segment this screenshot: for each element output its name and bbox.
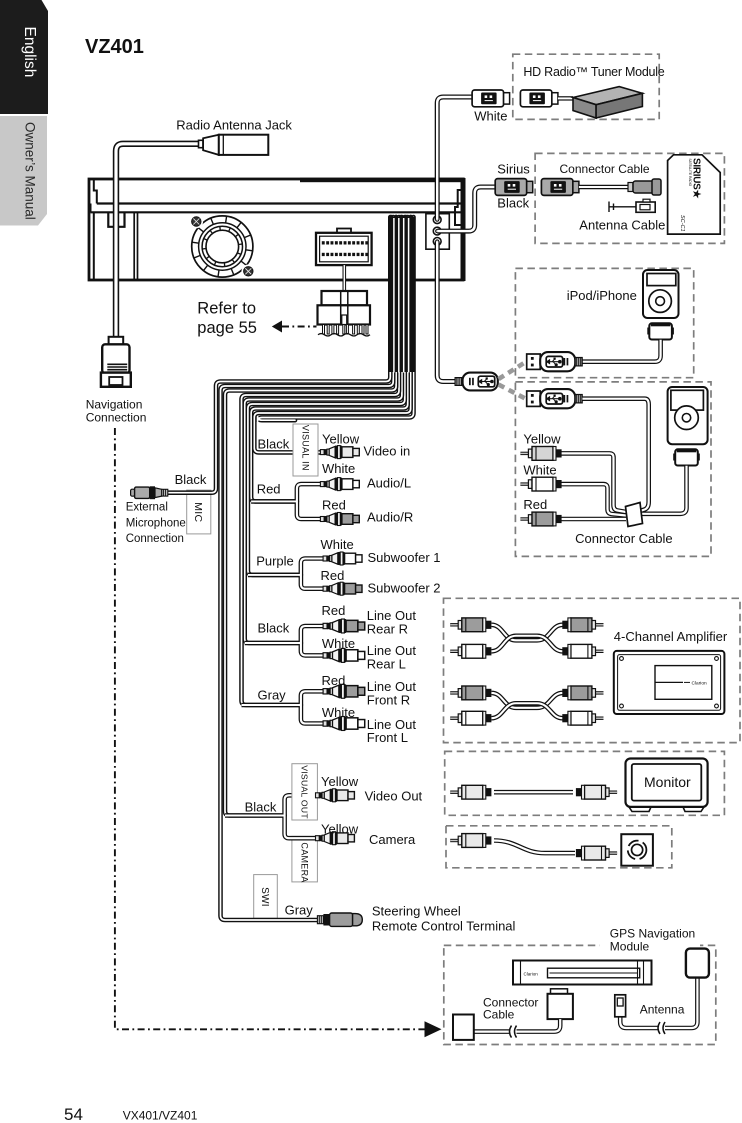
svg-text:Connector Cable: Connector Cable bbox=[560, 162, 650, 176]
svg-text:GPS Navigation: GPS Navigation bbox=[610, 927, 695, 941]
svg-text:Module: Module bbox=[610, 940, 650, 954]
svg-text:Subwoofer 1: Subwoofer 1 bbox=[368, 550, 441, 565]
svg-text:VX401/VZ401: VX401/VZ401 bbox=[123, 1109, 198, 1123]
svg-text:White: White bbox=[322, 636, 355, 651]
svg-text:Video in: Video in bbox=[364, 444, 411, 459]
svg-text:Black: Black bbox=[258, 621, 290, 636]
svg-text:Red: Red bbox=[257, 482, 281, 497]
svg-text:VISUAL OUT: VISUAL OUT bbox=[300, 765, 310, 819]
svg-text:SATELLITE RADIO: SATELLITE RADIO bbox=[688, 159, 692, 187]
svg-text:Purple: Purple bbox=[256, 554, 294, 569]
svg-text:Antenna: Antenna bbox=[640, 1003, 685, 1017]
svg-text:Refer to: Refer to bbox=[197, 300, 256, 318]
svg-text:Rear R: Rear R bbox=[367, 622, 408, 637]
svg-text:White: White bbox=[322, 461, 355, 476]
svg-text:VZ401: VZ401 bbox=[85, 36, 144, 58]
svg-text:Remote Control Terminal: Remote Control Terminal bbox=[372, 919, 516, 934]
svg-text:External: External bbox=[126, 502, 168, 514]
svg-text:Gray: Gray bbox=[258, 688, 287, 703]
svg-text:Black: Black bbox=[175, 472, 207, 487]
svg-text:Red: Red bbox=[322, 673, 346, 688]
svg-text:Steering Wheel: Steering Wheel bbox=[372, 904, 461, 919]
svg-text:Black: Black bbox=[497, 196, 529, 211]
svg-text:Audio/L: Audio/L bbox=[367, 476, 411, 491]
svg-text:Antenna Cable: Antenna Cable bbox=[579, 218, 665, 233]
svg-text:Red: Red bbox=[322, 498, 346, 513]
svg-text:Red: Red bbox=[322, 603, 346, 618]
svg-text:Navigation: Navigation bbox=[86, 398, 143, 412]
svg-text:Connection: Connection bbox=[126, 533, 184, 545]
svg-text:White: White bbox=[321, 537, 354, 552]
svg-text:Red: Red bbox=[523, 497, 547, 512]
svg-text:Camera: Camera bbox=[369, 832, 416, 847]
svg-text:Yellow: Yellow bbox=[321, 822, 359, 837]
svg-text:54: 54 bbox=[64, 1105, 83, 1123]
svg-text:Black: Black bbox=[245, 800, 277, 815]
svg-text:Yellow: Yellow bbox=[321, 774, 359, 789]
svg-text:HD Radio™ Tuner Module: HD Radio™ Tuner Module bbox=[523, 65, 664, 79]
svg-text:iPod/iPhone: iPod/iPhone bbox=[567, 288, 637, 303]
svg-text:Radio Antenna Jack: Radio Antenna Jack bbox=[176, 118, 292, 133]
svg-text:Yellow: Yellow bbox=[523, 432, 561, 447]
svg-text:White: White bbox=[523, 463, 556, 478]
svg-text:SWI: SWI bbox=[259, 887, 270, 907]
svg-text:Owner’s Manual: Owner’s Manual bbox=[23, 122, 38, 220]
svg-text:White: White bbox=[474, 109, 507, 124]
svg-text:Connector Cable: Connector Cable bbox=[575, 531, 673, 546]
svg-text:Front R: Front R bbox=[367, 693, 410, 708]
svg-text:Black: Black bbox=[258, 437, 290, 452]
svg-text:Monitor: Monitor bbox=[644, 774, 691, 790]
svg-text:English: English bbox=[21, 27, 38, 78]
svg-text:White: White bbox=[322, 705, 355, 720]
svg-text:CAMERA: CAMERA bbox=[299, 842, 309, 882]
svg-text:Microphone: Microphone bbox=[126, 517, 186, 529]
svg-text:MIC: MIC bbox=[192, 502, 204, 522]
svg-text:Sirius: Sirius bbox=[497, 162, 530, 177]
svg-text:page 55: page 55 bbox=[197, 319, 257, 337]
svg-text:Clarion: Clarion bbox=[692, 681, 708, 687]
svg-text:Connection: Connection bbox=[86, 411, 147, 425]
svg-text:Video Out: Video Out bbox=[365, 789, 423, 804]
svg-text:4-Channel Amplifier: 4-Channel Amplifier bbox=[614, 629, 728, 644]
svg-text:Cable: Cable bbox=[483, 1008, 515, 1022]
svg-text:Audio/R: Audio/R bbox=[367, 510, 413, 525]
svg-text:Gray: Gray bbox=[285, 903, 314, 918]
svg-text:Front L: Front L bbox=[367, 730, 408, 745]
svg-text:Yellow: Yellow bbox=[322, 432, 360, 447]
svg-text:VISUAL IN: VISUAL IN bbox=[300, 425, 310, 471]
svg-text:Clarion: Clarion bbox=[524, 972, 539, 977]
svg-text:Subwoofer 2: Subwoofer 2 bbox=[368, 581, 441, 596]
svg-text:Rear L: Rear L bbox=[367, 657, 406, 672]
svg-text:Red: Red bbox=[321, 568, 345, 583]
svg-text:SC-C1: SC-C1 bbox=[679, 215, 685, 232]
